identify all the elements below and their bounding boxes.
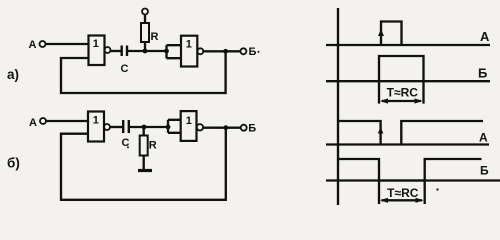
tied-input wires into DD2.2 [168, 120, 181, 133]
svg-text:1: 1 [93, 38, 99, 50]
wire R to ground [143, 156, 145, 170]
inverter DD1.2 (gate 2, circuit a) [181, 36, 203, 67]
wire C to node RC (circuit b) [130, 126, 169, 128]
wire DD1.1 output to capacitor C [111, 50, 121, 52]
wire A to gate DD1.1 input [46, 43, 90, 45]
terminal A (circuit a) [40, 41, 46, 47]
svg-text:C: C [121, 63, 129, 75]
time axis (vertical) [337, 8, 339, 205]
terminal B (output, circuit a) [240, 48, 246, 54]
wire C to node RC [128, 50, 167, 52]
stray speck [436, 188, 438, 190]
ground [138, 169, 152, 172]
resistor R (circuit a) [141, 23, 149, 42]
dimension arrows T (bottom) [380, 198, 424, 203]
capacitor C (circuit a) [122, 46, 127, 57]
wire DD2.1 output to capacitor C [110, 126, 122, 128]
wire R to node RC [144, 42, 146, 51]
junction node RC (circuit b) [142, 125, 147, 130]
trace B segments (bottom diagram) [338, 159, 482, 204]
feedback wire (circuit a) [61, 51, 226, 93]
svg-text:А: А [29, 117, 37, 129]
baseline trace A (top diagram) [326, 44, 490, 46]
stray speck below C label [127, 146, 129, 148]
svg-text:1: 1 [186, 115, 192, 127]
baseline trace B (top diagram) [326, 80, 490, 82]
terminal B (output, circuit b) [241, 125, 247, 131]
svg-text:б): б) [7, 156, 20, 171]
tied-input wires into DD1.2 [167, 45, 182, 58]
feedback wire (circuit b) [61, 128, 226, 200]
svg-text:R: R [151, 31, 159, 43]
svg-text:1: 1 [93, 115, 99, 127]
junction feedback takeoff (circuit a) [223, 49, 228, 54]
svg-text:T≈RC: T≈RC [387, 86, 419, 100]
svg-text:T≈RC: T≈RC [387, 186, 419, 200]
junction feedback takeoff (circuit b) [223, 125, 228, 130]
baseline trace B (bottom diagram) [326, 179, 500, 181]
inverter DD1.1 (gate 1, circuit a) [89, 36, 111, 66]
wire power terminal to R [144, 15, 146, 24]
junction at DD1.2 tied inputs (circuit a) [164, 49, 169, 54]
inverter DD2.1 (gate 1, circuit b) [88, 112, 110, 142]
wire node RC to R [143, 127, 145, 136]
capacitor C (circuit b) [123, 120, 129, 133]
svg-text:Б: Б [478, 66, 487, 81]
arrowhead up on falling edge (bottom A) [378, 127, 384, 134]
power terminal (top of R) [142, 9, 148, 15]
svg-text:А: А [29, 39, 37, 51]
junction at DD2.2 tied inputs (circuit b) [166, 125, 171, 130]
wire A to gate DD2.1 input [46, 120, 89, 122]
dimension arrows T (top) [380, 98, 423, 103]
inverter DD2.2 (gate 2, circuit b) [181, 111, 203, 141]
junction node RC (circuit a) [143, 49, 148, 54]
svg-text:а): а) [7, 67, 19, 82]
svg-text:А: А [480, 29, 490, 44]
baseline trace A (bottom diagram) [326, 143, 489, 145]
resistor R (circuit b) [140, 136, 148, 156]
svg-text:А: А [479, 130, 488, 144]
svg-text:Б: Б [480, 164, 489, 178]
arrowhead up on rising edge (top A) [378, 29, 384, 36]
wire DD1.2 output to terminal B [203, 50, 240, 52]
svg-text:Б: Б [249, 46, 257, 58]
terminal A (circuit b) [40, 118, 46, 124]
stray dot after label B [258, 51, 260, 53]
svg-text:R: R [149, 140, 157, 152]
svg-text:Б: Б [248, 123, 256, 135]
pulse on trace B (top diagram) [379, 56, 424, 104]
pulse on trace A (top diagram) [381, 22, 402, 46]
svg-text:1: 1 [186, 39, 192, 51]
trace A high segments (bottom diagram) [338, 121, 483, 145]
wire DD2.2 output to terminal B [203, 127, 241, 129]
